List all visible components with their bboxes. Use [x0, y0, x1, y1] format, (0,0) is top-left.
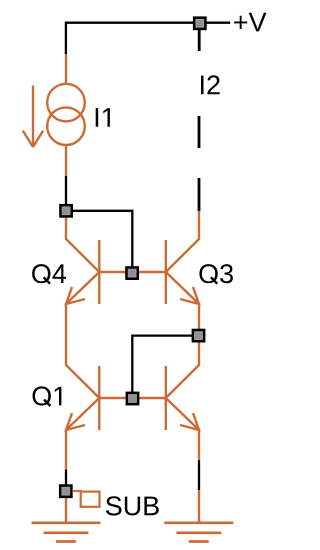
current source I1 pin stub bottom	[65, 145, 67, 176]
Q3 emitter lead	[166, 272, 199, 304]
+V node square	[194, 18, 205, 29]
Q3 base lead	[132, 271, 166, 273]
transistor Q1	[66, 365, 132, 470]
Q1 base bar	[98, 366, 100, 430]
base node square of Q1/Q2	[127, 393, 138, 404]
wire Q4 emitter to Q1 collector	[65, 303, 67, 366]
Q2 emitter arrowhead	[180, 413, 199, 430]
node B square	[193, 330, 204, 341]
Q4 emitter arrowhead	[66, 287, 85, 304]
wire node B to base node of Q1/Q2	[132, 336, 198, 399]
wire top rail to +V	[66, 23, 230, 55]
wire Q2 emitter black segment	[198, 460, 200, 490]
label I1	[96, 108, 110, 127]
Q4 base bar	[98, 240, 100, 304]
Q3 collector lead	[166, 211, 199, 272]
Q2 base bar	[165, 366, 167, 430]
Q2 emitter wire down	[198, 429, 200, 460]
Q4 base lead	[99, 271, 132, 273]
label Q3	[211, 277, 217, 283]
current source I1 arrow	[23, 86, 43, 148]
Q1 collector lead	[66, 365, 99, 398]
ground right	[164, 523, 233, 542]
Q1 emitter lead	[66, 398, 99, 430]
Q4 collector lead	[66, 218, 99, 273]
transistor Q3	[132, 211, 199, 330]
Q1 base lead	[99, 397, 132, 399]
label SUB	[106, 496, 159, 515]
current source I1 circle 1	[47, 84, 85, 122]
Q2 base lead	[132, 397, 166, 399]
Q3 emitter arrowhead	[180, 287, 199, 304]
current source I1 pin stub top	[65, 54, 67, 84]
current source I1 circle 2	[47, 107, 85, 145]
node A square	[60, 205, 71, 216]
Q4 emitter lead	[66, 272, 99, 304]
label Q1	[44, 400, 50, 406]
ground left	[32, 523, 101, 542]
label Q4	[44, 277, 50, 283]
label I2	[201, 75, 220, 94]
transistor Q4	[66, 218, 132, 305]
Q3 emitter wire to node B	[198, 303, 200, 330]
transistor Q2 (unlabeled)	[132, 343, 199, 461]
Q1 emitter arrowhead	[66, 413, 85, 430]
wire to right ground	[198, 490, 200, 523]
wire node A to base node of Q4/Q3	[66, 211, 132, 273]
node SUB square	[60, 486, 71, 497]
Q1 emitter wire down	[65, 429, 67, 470]
base node square of Q4/Q3	[126, 267, 137, 278]
wire I1 to node A	[65, 176, 67, 205]
Q2 collector lead	[166, 343, 199, 399]
SUB terminal symbol (open square)	[72, 491, 99, 507]
Q2 emitter lead	[166, 398, 199, 430]
wire Q1 emitter to SUB node	[65, 470, 67, 485]
Q3 base bar	[165, 240, 167, 304]
wire SUB node to left ground	[65, 498, 67, 523]
label +V	[234, 13, 266, 32]
current source I2 dashed wire	[198, 30, 201, 211]
